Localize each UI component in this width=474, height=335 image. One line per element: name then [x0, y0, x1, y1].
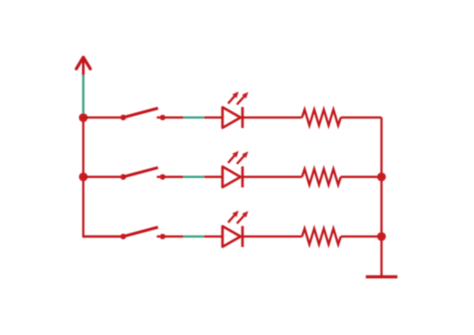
switch S3: [120, 227, 165, 239]
wire S3 to wire-teal row3: [163, 235, 184, 237]
wire LED1 to resistor R1: [243, 116, 303, 118]
resistor R2: [302, 169, 341, 185]
wire W3 row2 (teal): [184, 176, 205, 178]
resistor R3: [302, 229, 341, 245]
wire teal to LED2 anode: [204, 176, 223, 178]
power supply V+ arrow: [76, 57, 90, 75]
switch S1: [120, 108, 165, 120]
wire S1 to wire-teal row1: [163, 116, 184, 118]
wire row3 left rail corner to switch S3: [83, 235, 123, 237]
wire W4 row3 (teal): [184, 235, 205, 237]
node A junction dot: [79, 113, 88, 122]
LED D1: [223, 92, 249, 129]
wire W2 row1 (teal): [184, 116, 205, 118]
resistor R1: [302, 110, 341, 126]
wire W1 (power symbol to node A, teal): [82, 75, 84, 114]
LED D2: [223, 151, 249, 188]
wire LED3 to resistor R3: [243, 235, 303, 237]
wire R2 to right rail: [341, 176, 382, 178]
wire R1 to right rail: [341, 116, 382, 118]
node B junction dot: [79, 173, 88, 182]
wire S2 to wire-teal row2: [163, 176, 184, 178]
wire teal to LED3 anode: [204, 235, 223, 237]
right rail wire: [380, 118, 382, 277]
wire R3 to right rail: [341, 235, 382, 237]
wire row2 node B to switch S2: [83, 176, 123, 178]
node D junction dot: [377, 232, 386, 241]
ground: [366, 275, 398, 278]
switch S2: [120, 168, 165, 180]
wire LED2 to resistor R2: [243, 176, 303, 178]
left rail wire: [83, 118, 123, 237]
node C junction dot: [377, 173, 386, 182]
wire row1 node A to switch S1: [83, 116, 123, 118]
wire teal to LED1 anode: [204, 116, 223, 118]
LED D3: [223, 211, 249, 248]
